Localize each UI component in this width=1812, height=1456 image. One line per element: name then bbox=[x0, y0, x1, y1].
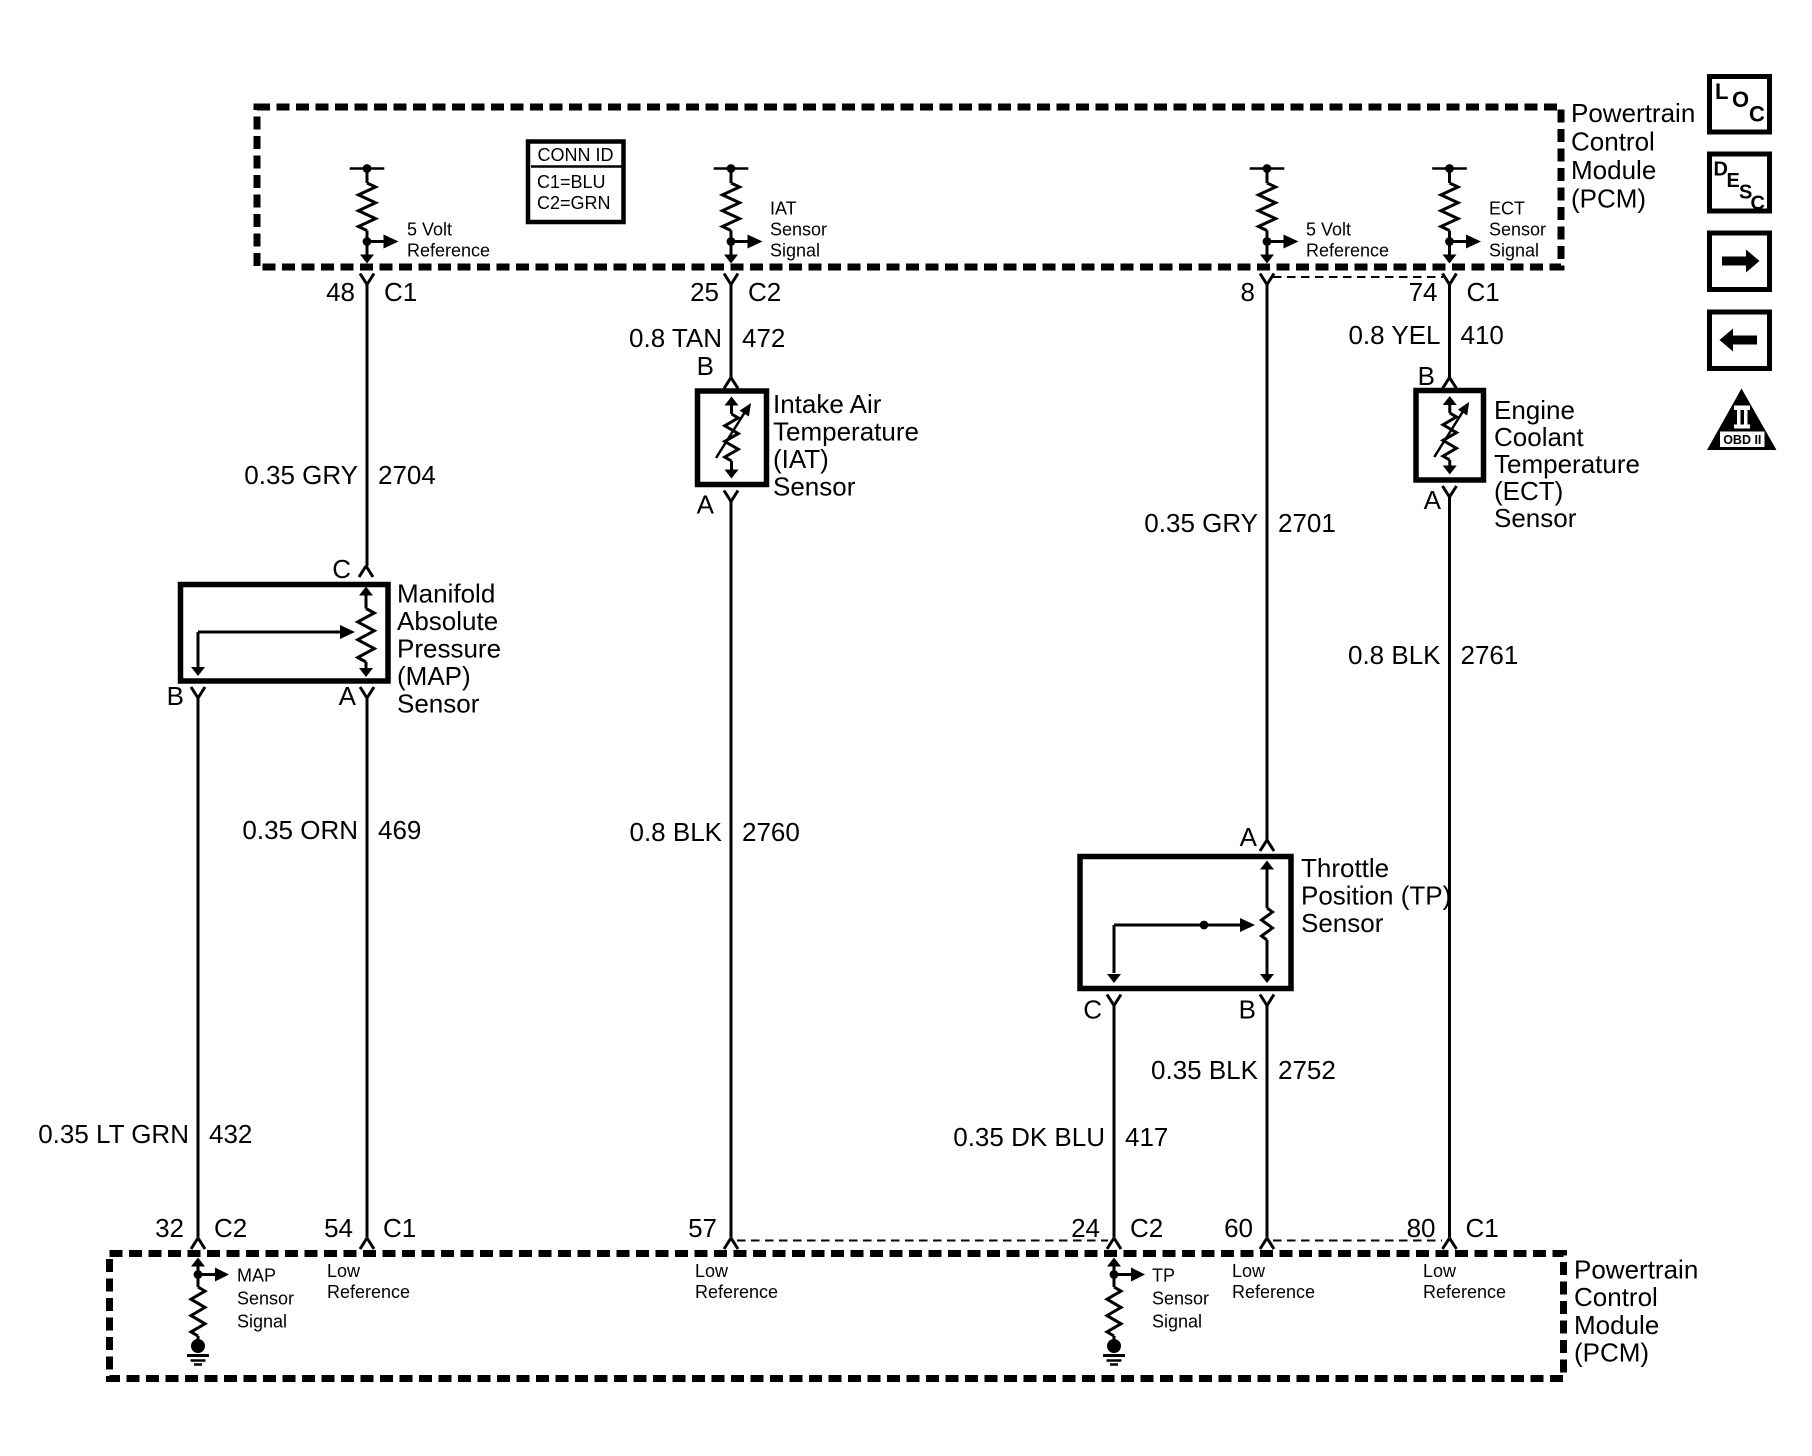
svg-text:24: 24 bbox=[1071, 1213, 1100, 1243]
svg-text:C: C bbox=[1751, 193, 1765, 215]
svg-text:C1: C1 bbox=[1466, 1213, 1499, 1243]
svg-text:Reference: Reference bbox=[407, 241, 490, 261]
svg-text:0.35 GRY: 0.35 GRY bbox=[1144, 508, 1258, 538]
svg-text:Sensor: Sensor bbox=[397, 689, 480, 719]
svg-text:80: 80 bbox=[1407, 1213, 1436, 1243]
svg-text:0.8 YEL: 0.8 YEL bbox=[1348, 320, 1440, 350]
svg-text:Signal: Signal bbox=[237, 1312, 287, 1332]
svg-text:Pressure: Pressure bbox=[397, 634, 501, 664]
svg-text:B: B bbox=[167, 681, 184, 711]
svg-text:(IAT): (IAT) bbox=[773, 444, 829, 474]
svg-text:Reference: Reference bbox=[1232, 1282, 1315, 1302]
svg-text:C1=BLU: C1=BLU bbox=[537, 172, 606, 192]
svg-text:A: A bbox=[1240, 822, 1258, 852]
svg-text:Low: Low bbox=[327, 1261, 361, 1281]
svg-text:2761: 2761 bbox=[1461, 640, 1519, 670]
svg-text:0.8 BLK: 0.8 BLK bbox=[629, 817, 722, 847]
svg-text:32: 32 bbox=[155, 1213, 184, 1243]
svg-text:OBD II: OBD II bbox=[1723, 433, 1761, 447]
svg-text:C: C bbox=[332, 554, 351, 584]
svg-text:TP: TP bbox=[1152, 1266, 1175, 1286]
svg-text:0.35 GRY: 0.35 GRY bbox=[244, 460, 358, 490]
svg-text:Sensor: Sensor bbox=[1152, 1289, 1209, 1309]
svg-text:A: A bbox=[339, 681, 357, 711]
svg-text:O: O bbox=[1732, 87, 1749, 112]
svg-text:Module: Module bbox=[1574, 1310, 1659, 1340]
svg-text:Absolute: Absolute bbox=[397, 606, 498, 636]
svg-text:E: E bbox=[1727, 170, 1740, 192]
svg-text:8: 8 bbox=[1241, 277, 1255, 307]
svg-text:C2: C2 bbox=[1130, 1213, 1163, 1243]
svg-text:Powertrain: Powertrain bbox=[1571, 98, 1695, 128]
svg-text:60: 60 bbox=[1224, 1213, 1253, 1243]
svg-text:C2: C2 bbox=[214, 1213, 247, 1243]
svg-text:74: 74 bbox=[1409, 277, 1438, 307]
svg-text:Control: Control bbox=[1571, 127, 1655, 157]
svg-text:Coolant: Coolant bbox=[1494, 422, 1584, 452]
svg-text:Sensor: Sensor bbox=[773, 472, 856, 502]
svg-text:IAT: IAT bbox=[770, 199, 797, 219]
svg-text:L: L bbox=[1715, 79, 1728, 104]
svg-text:Reference: Reference bbox=[327, 1282, 410, 1302]
svg-text:A: A bbox=[697, 490, 715, 520]
svg-text:Position (TP): Position (TP) bbox=[1301, 881, 1451, 911]
svg-text:C1: C1 bbox=[383, 1213, 416, 1243]
svg-text:Powertrain: Powertrain bbox=[1574, 1255, 1698, 1285]
svg-text:2752: 2752 bbox=[1278, 1055, 1336, 1085]
svg-text:Reference: Reference bbox=[1423, 1282, 1506, 1302]
svg-text:C: C bbox=[1083, 995, 1102, 1025]
svg-text:472: 472 bbox=[742, 323, 785, 353]
svg-text:469: 469 bbox=[378, 815, 421, 845]
svg-text:C: C bbox=[1749, 102, 1765, 127]
svg-text:410: 410 bbox=[1461, 320, 1504, 350]
svg-text:MAP: MAP bbox=[237, 1266, 276, 1286]
svg-text:Low: Low bbox=[1423, 1261, 1457, 1281]
svg-text:(ECT): (ECT) bbox=[1494, 476, 1563, 506]
svg-text:Low: Low bbox=[1232, 1261, 1266, 1281]
svg-text:0.35 ORN: 0.35 ORN bbox=[242, 815, 358, 845]
svg-text:0.8 BLK: 0.8 BLK bbox=[1348, 640, 1441, 670]
svg-text:A: A bbox=[1424, 485, 1442, 515]
svg-text:432: 432 bbox=[209, 1119, 252, 1149]
svg-text:Signal: Signal bbox=[1489, 241, 1539, 261]
svg-text:417: 417 bbox=[1125, 1122, 1168, 1152]
svg-text:(PCM): (PCM) bbox=[1574, 1338, 1649, 1368]
svg-text:0.8 TAN: 0.8 TAN bbox=[629, 323, 722, 353]
svg-text:0.35 BLK: 0.35 BLK bbox=[1151, 1055, 1259, 1085]
svg-text:CONN ID: CONN ID bbox=[538, 145, 614, 165]
svg-text:B: B bbox=[1418, 361, 1435, 391]
svg-text:Sensor: Sensor bbox=[1494, 503, 1577, 533]
svg-text:Control: Control bbox=[1574, 1282, 1658, 1312]
svg-text:Sensor: Sensor bbox=[1489, 220, 1546, 240]
svg-text:57: 57 bbox=[688, 1213, 717, 1243]
svg-text:0.35 DK BLU: 0.35 DK BLU bbox=[953, 1122, 1105, 1152]
svg-text:Engine: Engine bbox=[1494, 395, 1575, 425]
svg-text:Sensor: Sensor bbox=[770, 220, 827, 240]
svg-text:Temperature: Temperature bbox=[1494, 449, 1640, 479]
svg-text:2760: 2760 bbox=[742, 817, 800, 847]
svg-text:Reference: Reference bbox=[1306, 241, 1389, 261]
svg-text:B: B bbox=[1239, 995, 1256, 1025]
svg-text:ECT: ECT bbox=[1489, 199, 1525, 219]
svg-text:Reference: Reference bbox=[695, 1282, 778, 1302]
svg-text:(PCM): (PCM) bbox=[1571, 184, 1646, 214]
svg-text:2701: 2701 bbox=[1278, 508, 1336, 538]
svg-text:Throttle: Throttle bbox=[1301, 853, 1389, 883]
svg-text:5 Volt: 5 Volt bbox=[407, 220, 452, 240]
svg-text:Module: Module bbox=[1571, 155, 1656, 185]
svg-text:54: 54 bbox=[324, 1213, 353, 1243]
svg-text:2704: 2704 bbox=[378, 460, 436, 490]
svg-text:Sensor: Sensor bbox=[1301, 908, 1384, 938]
svg-text:25: 25 bbox=[690, 277, 719, 307]
svg-text:Manifold: Manifold bbox=[397, 579, 495, 609]
svg-text:C1: C1 bbox=[1467, 277, 1500, 307]
svg-text:Signal: Signal bbox=[1152, 1312, 1202, 1332]
svg-text:Temperature: Temperature bbox=[773, 417, 919, 447]
svg-text:48: 48 bbox=[326, 277, 355, 307]
svg-text:Low: Low bbox=[695, 1261, 729, 1281]
svg-text:B: B bbox=[697, 351, 714, 381]
svg-text:(MAP): (MAP) bbox=[397, 661, 471, 691]
svg-text:C2=GRN: C2=GRN bbox=[537, 193, 611, 213]
svg-text:C1: C1 bbox=[384, 277, 417, 307]
svg-text:Intake Air: Intake Air bbox=[773, 389, 882, 419]
svg-text:0.35 LT GRN: 0.35 LT GRN bbox=[38, 1119, 189, 1149]
svg-text:C2: C2 bbox=[748, 277, 781, 307]
svg-text:Sensor: Sensor bbox=[237, 1289, 294, 1309]
svg-text:5 Volt: 5 Volt bbox=[1306, 220, 1351, 240]
svg-text:Signal: Signal bbox=[770, 241, 820, 261]
